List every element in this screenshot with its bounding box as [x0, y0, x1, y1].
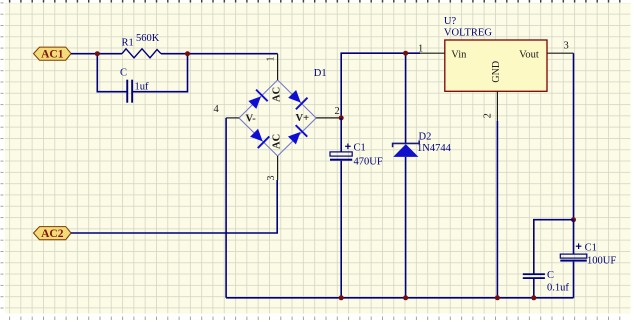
svg-text:Vin: Vin — [451, 49, 467, 60]
wire 100UF down to rail end — [573, 262, 575, 298]
junction rail at U? pin2 — [495, 295, 500, 300]
pin 3 of U? — [547, 52, 574, 54]
pin 2 of D1 (right) — [316, 117, 341, 119]
pin 1 of U? — [420, 52, 445, 54]
svg-text:1uf: 1uf — [135, 82, 150, 93]
svg-text:AC: AC — [272, 134, 283, 149]
plus sign C1 100UF — [576, 243, 582, 249]
pin name GND — [491, 61, 502, 83]
plus sign C1 470UF — [345, 144, 351, 150]
svg-text:100UF: 100UF — [587, 256, 616, 267]
pin number 4 (D1) — [214, 104, 220, 115]
label VOLTREG — [444, 28, 492, 39]
label 1N4744 — [417, 143, 452, 154]
wire R1 to bridge pin1 corner — [161, 53, 278, 55]
label 560K — [136, 33, 160, 44]
label C (0.1uf) — [547, 270, 554, 281]
label C (1uf cap) — [120, 68, 127, 79]
svg-text:0.1uf: 0.1uf — [547, 282, 569, 293]
svg-text:C1: C1 — [354, 143, 366, 154]
pin name Vin — [451, 49, 467, 60]
label D1 — [314, 68, 327, 79]
pin 1 of D1 (top) — [277, 54, 279, 80]
capacitor C1 100UF — [560, 254, 587, 262]
label 1uf — [135, 82, 150, 93]
bridge D1 diamond body — [239, 80, 316, 156]
junction rail at C1 470UF — [339, 295, 344, 300]
svg-text:3: 3 — [266, 176, 277, 181]
label 470UF — [354, 157, 383, 168]
diode D2 zener — [393, 140, 420, 157]
wire bridge pin2 up and right to U1 — [341, 53, 420, 118]
svg-text:D1: D1 — [314, 68, 327, 79]
svg-text:GND: GND — [491, 61, 502, 83]
svg-text:V+: V+ — [296, 113, 310, 124]
wire bridge pin2 down to C1 — [340, 118, 342, 152]
svg-text:U?: U? — [444, 16, 457, 27]
svg-text:1: 1 — [266, 57, 277, 62]
svg-text:C: C — [120, 68, 127, 79]
svg-text:V-: V- — [246, 114, 257, 125]
label R1 — [122, 38, 134, 49]
label 0.1uf — [547, 282, 569, 293]
wire 0.1uf down to rail — [533, 279, 535, 298]
pin number 2 (U?) — [483, 113, 494, 118]
resistor R1 — [122, 49, 161, 58]
junction rail at 0.1uf — [531, 295, 536, 300]
junction at bridge pin2 — [339, 115, 344, 120]
junction at R1/C right node — [185, 51, 190, 56]
junction at D2 top node — [403, 51, 408, 56]
svg-text:2: 2 — [335, 106, 340, 117]
pin 4 of D1 (left) — [226, 117, 239, 119]
wire Vout node left to 0.1uf branch — [534, 220, 574, 274]
diode D1a (V- to AC top) — [247, 89, 269, 111]
svg-text:C: C — [547, 270, 554, 281]
label C1 (470UF) — [354, 143, 366, 154]
op-amp U? VOLTREG box — [445, 40, 547, 91]
wire AC1 to R1 — [71, 53, 122, 55]
wire U? pin2 down to rail — [496, 121, 498, 298]
capacitor C 1uf plates — [126, 80, 133, 103]
wire bridge pin4 down to rail — [225, 118, 227, 298]
pin 3 of D1 (bottom) — [277, 156, 279, 180]
label D2 — [419, 132, 432, 143]
wire cap to right riser — [133, 54, 188, 92]
pin number 1 (D1) — [266, 57, 277, 62]
capacitor C1 470UF — [330, 152, 352, 161]
wire U? pin3 down right side — [573, 53, 575, 220]
diode D1d (AC bottom to V+) — [286, 124, 308, 146]
svg-text:2: 2 — [483, 113, 494, 118]
wire ground rail bottom — [226, 297, 573, 299]
svg-text:C1: C1 — [585, 243, 597, 254]
wire C1 down to rail — [340, 161, 342, 298]
svg-text:1: 1 — [418, 44, 423, 55]
pin name AC bottom (D1) — [272, 134, 283, 149]
wire junction to D2 down — [405, 53, 407, 143]
port AC2 — [34, 227, 72, 240]
port AC1 — [34, 47, 72, 61]
diode D1c (V- to AC bottom) — [248, 127, 270, 149]
pin name Vout — [519, 49, 539, 60]
pin 2 of U? — [496, 91, 498, 121]
svg-text:AC: AC — [272, 87, 283, 102]
label U? — [444, 16, 457, 27]
wire AC2 to bridge pin3 riser — [71, 180, 277, 233]
label C1 (100UF) — [585, 243, 597, 254]
wire junction branch down left (RC parallel) — [97, 54, 126, 92]
pin name V+ (D1) — [296, 113, 310, 124]
svg-text:1N4744: 1N4744 — [417, 143, 452, 154]
svg-text:AC1: AC1 — [41, 49, 64, 61]
svg-text:4: 4 — [214, 104, 220, 115]
svg-text:R1: R1 — [122, 38, 134, 49]
pin number 2 (D1) — [335, 106, 340, 117]
junction rail at D2 — [403, 295, 408, 300]
pin number 1 (U?) — [418, 44, 423, 55]
svg-text:D2: D2 — [419, 132, 432, 143]
pin name AC top (D1) — [272, 87, 283, 102]
diode D1b (AC top to V+) — [286, 88, 308, 110]
junction at Vout node — [571, 217, 576, 222]
pin name V- (D1) — [246, 114, 257, 125]
wire D2 down to rail — [405, 157, 407, 298]
capacitor C 0.1uf — [523, 273, 545, 279]
pin number 3 (D1) — [266, 176, 277, 181]
svg-text:3: 3 — [564, 41, 569, 52]
svg-text:470UF: 470UF — [354, 157, 383, 168]
label 100UF — [587, 256, 616, 267]
svg-text:AC2: AC2 — [41, 228, 64, 240]
svg-text:VOLTREG: VOLTREG — [444, 28, 492, 39]
pin number 3 (U?) — [564, 41, 569, 52]
wire Vout node down to 100UF — [573, 220, 575, 254]
junction at AC1/R1/C node — [95, 51, 100, 56]
svg-text:560K: 560K — [136, 33, 160, 44]
svg-text:Vout: Vout — [519, 49, 539, 60]
